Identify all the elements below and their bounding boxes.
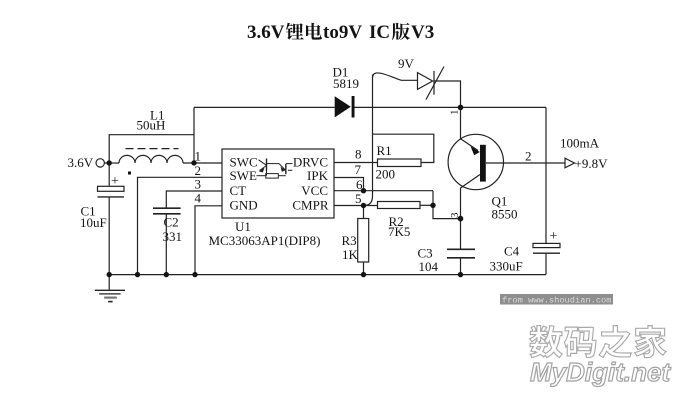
capacitor C3 plates bbox=[447, 249, 475, 257]
zener diode 9V cathode bar bbox=[433, 71, 435, 95]
svg-text:104: 104 bbox=[419, 259, 439, 274]
svg-text:C2: C2 bbox=[164, 215, 179, 230]
wire input node up and over to switch node bbox=[109, 135, 194, 163]
svg-text:10uF: 10uF bbox=[80, 215, 107, 230]
wire R3 bottom to ground rail bbox=[363, 262, 365, 275]
wire IC pin4 GND to ground rail bbox=[195, 206, 222, 275]
wire C3 bottom to ground rail bbox=[460, 258, 462, 275]
wire IC pin7 IPK over and down to pin6 node bbox=[334, 178, 364, 191]
wire C1 bottom to ground rail bbox=[108, 197, 110, 275]
wire Q1 collector down to C3 bbox=[460, 188, 462, 250]
wire IC pin5 CMPR to R2 left bbox=[334, 205, 378, 207]
svg-text:3: 3 bbox=[449, 212, 461, 218]
wire inductor to IC pin1 SWC bbox=[183, 162, 222, 164]
node output top rail junction bbox=[458, 105, 464, 111]
node input junction bbox=[107, 160, 112, 165]
svg-text:5: 5 bbox=[355, 191, 362, 206]
svg-text:U1: U1 bbox=[235, 219, 251, 234]
capacitor C4 negative plate bbox=[533, 252, 560, 254]
node pin6/pin7 junction bbox=[361, 188, 366, 193]
diode D1 cathode bar bbox=[352, 96, 355, 118]
transistor Q1 emitter diagonal bbox=[461, 139, 479, 151]
wire R1 right end up and over to feedback vertical bbox=[373, 134, 434, 162]
svg-text:V3: V3 bbox=[411, 22, 434, 43]
zener diode 9V triangle bbox=[418, 73, 433, 90]
wire R2 right end down to Q1 collector branch bbox=[433, 191, 461, 219]
IC U1 body rectangle bbox=[222, 149, 334, 218]
title text 3.6V锂电to9V IC版V3 bbox=[247, 22, 434, 43]
inductor L1 winding bbox=[119, 155, 183, 163]
wire C1 branch from input node bbox=[108, 163, 110, 186]
U1 internal base resistor box bbox=[266, 174, 279, 179]
wire Q1 base to output arrow bbox=[486, 162, 565, 164]
svg-text:IPK: IPK bbox=[307, 168, 329, 183]
transistor Q1 collector diagonal bbox=[461, 175, 481, 189]
node R2 right junction bbox=[430, 203, 435, 208]
U1 internal emitter line bbox=[257, 175, 266, 177]
svg-text:CMPR: CMPR bbox=[292, 198, 328, 213]
wire feedback vertical x=372.5 with arc into pin5 node bbox=[364, 75, 373, 206]
svg-text:MyDigit.net: MyDigit.net bbox=[530, 357, 671, 387]
transistor Q1 circle bbox=[448, 134, 503, 189]
inductor L1 core dashed line bbox=[126, 148, 179, 150]
wire top rail y=107.4 from node to D1 anode bbox=[194, 106, 335, 108]
U1 internal top link bbox=[267, 163, 279, 165]
svg-text:+: + bbox=[550, 229, 558, 244]
wire right rail x=546 down to C4 bbox=[545, 107, 547, 243]
svg-text:2: 2 bbox=[525, 149, 532, 164]
svg-text:7K5: 7K5 bbox=[388, 224, 410, 239]
watermark 数码之家 bbox=[530, 326, 563, 358]
wire vertical x=194 top rail to inductor node bbox=[193, 107, 195, 163]
resistor R1 body bbox=[378, 159, 422, 167]
svg-text:5819: 5819 bbox=[333, 76, 359, 91]
svg-text:+: + bbox=[111, 174, 119, 189]
svg-text:MC33063AP1(DIP8): MC33063AP1(DIP8) bbox=[209, 233, 321, 248]
svg-text:50uH: 50uH bbox=[137, 118, 166, 133]
svg-text:+9.8V: +9.8V bbox=[575, 156, 609, 171]
wire IC pin8 DRVC to R1 bbox=[334, 162, 378, 164]
svg-text:7: 7 bbox=[355, 162, 362, 177]
svg-text:200: 200 bbox=[376, 167, 396, 182]
wire IC pin3 CT to C2 bbox=[166, 191, 222, 208]
svg-text:1: 1 bbox=[195, 149, 202, 164]
svg-text:to9V: to9V bbox=[323, 22, 362, 43]
wire IC pin6 VCC to R2 right vertical bbox=[334, 190, 433, 192]
node rail C3 bbox=[458, 272, 463, 277]
wire C2 bottom to ground rail bbox=[165, 214, 167, 275]
svg-text:C4: C4 bbox=[504, 244, 520, 259]
wire R2 right to node bbox=[420, 204, 433, 206]
inductor winding polarity dot bbox=[128, 172, 131, 175]
node collector branch junction bbox=[458, 216, 464, 222]
wire right rail C4 to bottom corner bbox=[545, 253, 547, 275]
svg-text:1K: 1K bbox=[342, 247, 359, 262]
input terminal circle 3.6V bbox=[96, 159, 104, 167]
svg-text:IC: IC bbox=[369, 22, 390, 43]
zener diode 9V diagonal stroke bbox=[426, 67, 444, 100]
U1 internal transistor T1 bbox=[259, 160, 267, 166]
svg-text:9V: 9V bbox=[398, 56, 415, 71]
wire zener cathode to output node bbox=[434, 81, 461, 107]
svg-text:VCC: VCC bbox=[301, 183, 328, 198]
capacitor C1 negative plate bbox=[98, 196, 125, 198]
node rail pin4 GND bbox=[192, 272, 197, 277]
wire curve from feedback vertical to zener anode bbox=[373, 73, 418, 80]
svg-text:from www.shoudian.com: from www.shoudian.com bbox=[502, 295, 611, 305]
ground symbol earth lines bbox=[108, 275, 110, 290]
svg-text:R3: R3 bbox=[342, 233, 357, 248]
transistor Q1 emitter arrowhead bbox=[471, 146, 480, 155]
svg-text:8550: 8550 bbox=[492, 206, 518, 221]
node rail C1/ground bbox=[107, 272, 112, 277]
svg-text:1: 1 bbox=[449, 110, 461, 116]
capacitor C2 plates bbox=[153, 208, 181, 214]
svg-text:CT: CT bbox=[230, 183, 247, 198]
svg-text:6: 6 bbox=[356, 177, 363, 192]
svg-text:3: 3 bbox=[195, 177, 202, 192]
svg-text:8: 8 bbox=[355, 147, 362, 162]
svg-text:GND: GND bbox=[230, 198, 258, 213]
node rail C2 bbox=[164, 272, 169, 277]
capacitor C4 positive plate bbox=[533, 243, 560, 247]
stamp bar from www.shoudian.com bbox=[500, 294, 613, 305]
node switch/inductor junction pin1 bbox=[191, 160, 196, 165]
U1 internal arrowheads bbox=[259, 168, 265, 173]
svg-text:330uF: 330uF bbox=[490, 259, 523, 274]
wire Q1 emitter from output node bbox=[460, 107, 462, 138]
svg-text:100mA: 100mA bbox=[560, 136, 600, 151]
svg-text:R1: R1 bbox=[377, 143, 392, 158]
resistor R3 body bbox=[358, 219, 369, 263]
U1 internal transistor T2 bbox=[279, 164, 285, 170]
svg-text:3.6V: 3.6V bbox=[247, 22, 285, 43]
node rail SWE bbox=[135, 272, 140, 277]
transistor Q1 base bar bbox=[480, 145, 486, 182]
output arrow open triangle bbox=[565, 158, 575, 168]
svg-text:3.6V: 3.6V bbox=[68, 155, 94, 170]
wire bottom ground rail y=274.6 bbox=[108, 274, 547, 276]
svg-text:331: 331 bbox=[163, 229, 183, 244]
wire pin5 node down to R3 bbox=[363, 206, 365, 219]
node pin5 feedback junction bbox=[361, 203, 366, 208]
diode D1 filled triangle bbox=[335, 96, 351, 117]
wire input terminal to inductor bbox=[105, 162, 119, 164]
resistor R2 body bbox=[378, 202, 421, 209]
svg-text:4: 4 bbox=[195, 191, 202, 206]
wire IC pin2 SWE to ground rail bbox=[138, 177, 223, 274]
capacitor C1 positive plate bbox=[98, 186, 125, 191]
node rail R3 bbox=[361, 272, 366, 277]
wire top rail D1 cathode to right corner bbox=[355, 106, 547, 108]
svg-text:SWE: SWE bbox=[230, 168, 258, 183]
